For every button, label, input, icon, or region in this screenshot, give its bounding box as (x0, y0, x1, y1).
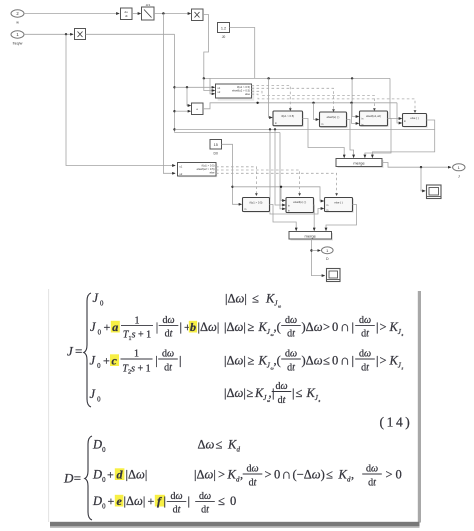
wire J3 out to merge1 (365, 119, 391, 158)
svg-text:c: c (112, 354, 118, 368)
wire bus to J4 input1 (390, 78, 402, 118)
svg-text:merge: merge (353, 161, 365, 166)
svg-text:15: 15 (214, 143, 218, 147)
svg-text:0: 0 (230, 494, 236, 508)
J row3 cond (224, 354, 246, 368)
node (268.6,78.4) (267, 77, 269, 79)
svg-text:|: | (179, 354, 182, 368)
svg-text:if(u1 > 0.5): if(u1 > 0.5) (250, 201, 263, 205)
svg-text:else { }: else { } (410, 116, 418, 120)
delta-w lower bus y=129.4 (175, 128, 435, 130)
svg-text:0: 0 (97, 397, 101, 404)
svg-text:J0: J0 (222, 35, 226, 39)
constant 1.2 block (218, 23, 230, 40)
wire down-left to D-if input1 (66, 34, 175, 165)
svg-text:elseif(u) { }: elseif(u) { } (293, 200, 306, 204)
node at (66,34) (65, 33, 67, 35)
wire merge2 down (312, 239, 325, 276)
dashed if action line 4 (252, 94, 416, 111)
J action block 3 (360, 111, 389, 127)
wire J2 out to merge1 (347, 120, 354, 158)
constant 15 block (210, 140, 222, 156)
svg-text:≤: ≤ (296, 386, 303, 400)
merge block 1 (336, 159, 384, 169)
D If block (178, 163, 218, 178)
sum output bus y=102.8 (203, 103, 397, 109)
vertical bus x=174.5 (174, 34, 176, 132)
svg-text:≥: ≥ (247, 386, 254, 400)
sum block (192, 103, 204, 115)
wire port1 to abs (24, 33, 73, 35)
svg-text:else { }: else { } (334, 201, 342, 205)
D row3 cond (195, 491, 215, 516)
svg-text:D: D (63, 471, 74, 486)
svg-text:≤: ≤ (326, 468, 333, 482)
svg-text:T2s + 1: T2s + 1 (122, 363, 150, 375)
D row2 cond (194, 468, 216, 482)
svg-text:≤: ≤ (218, 494, 225, 508)
svg-text:elseif(u2 > 0.5): elseif(u2 > 0.5) (197, 167, 215, 171)
D action block 2 (286, 198, 315, 214)
wire to output port D (312, 250, 321, 252)
svg-text:(−Δω): (−Δω) (293, 468, 325, 482)
wire saturation to product (154, 13, 191, 15)
output port D (322, 247, 334, 261)
J row4 cond (224, 386, 246, 400)
svg-text:≥: ≥ (248, 354, 255, 368)
node (311.5,250.5) (310, 249, 312, 251)
dashed if action line 1 (252, 85, 291, 109)
svg-text:,(: ,( (274, 320, 281, 334)
derivative block du/dt (121, 8, 133, 20)
wire bus to J1 input (269, 78, 272, 117)
svg-text:≤: ≤ (216, 438, 223, 452)
node (270,129.4) (269, 128, 271, 130)
svg-text:0: 0 (97, 363, 101, 370)
wire dw/dt down to D-if input2 (163, 14, 175, 174)
svg-text:1: 1 (134, 349, 139, 360)
svg-text:,: , (240, 468, 243, 482)
svg-text:d: d (117, 468, 124, 482)
dashed D action line 1 (216, 167, 256, 195)
svg-text:|: | (180, 320, 183, 334)
svg-text:D: D (92, 494, 102, 508)
svg-text:elseif(u) { }: elseif(u) { } (327, 115, 340, 119)
node (351.5,102.8) (350, 102, 352, 104)
svg-text:|: | (156, 320, 159, 334)
wire bus to sum in2 (175, 110, 191, 112)
wire to J2 input (314, 103, 319, 120)
svg-text:,: , (351, 468, 354, 482)
svg-text:|: | (376, 320, 379, 334)
wire to J3 input2 (352, 103, 359, 124)
svg-text:+: + (108, 494, 115, 508)
svg-text:1: 1 (135, 315, 140, 326)
wire J4 out to merge1 (372, 120, 434, 158)
svg-text:≤: ≤ (252, 292, 259, 306)
node (174.5,111.2) (173, 110, 175, 112)
dashed D action line 2 (216, 170, 300, 195)
wire merge1 to output J (382, 163, 451, 168)
wire D1 out to merge2 (270, 205, 297, 231)
D action block 3 (325, 198, 354, 213)
node (187,87.3) (186, 86, 188, 88)
abs block U1 (75, 29, 86, 40)
svg-text:a: a (112, 320, 118, 334)
svg-text:if(u1 > 0.5): if(u1 > 0.5) (202, 164, 215, 168)
svg-text:e: e (117, 494, 123, 508)
svg-text:Δω: Δω (198, 438, 215, 452)
svg-text:w: w (16, 21, 19, 25)
svg-text:0: 0 (332, 354, 338, 368)
wire stub to If1 u3 (210, 78, 215, 93)
wire port2 to derivative (24, 13, 119, 15)
node (421,167.2) (420, 166, 422, 168)
product block (192, 9, 204, 21)
J brace (84, 293, 91, 407)
dashed if action line 2 (252, 88, 334, 110)
svg-text:>: > (323, 320, 330, 334)
node (232.5,186.8) (231, 186, 233, 188)
svg-text:merge: merge (305, 234, 317, 239)
svg-text:∩: ∩ (340, 319, 350, 334)
svg-text:,(: ,( (274, 354, 281, 368)
svg-text:D: D (326, 257, 329, 261)
svg-text:|: | (352, 320, 355, 334)
wire to scope1 (421, 167, 425, 191)
wire to If1 u1 (175, 86, 215, 88)
node (203.8,78.4) (203, 77, 205, 79)
node (352.1,78.4) (351, 77, 353, 79)
J action block 2 (320, 112, 348, 128)
wire D2 out to merge2 (313, 205, 316, 231)
bus y=78.4 (204, 77, 390, 79)
svg-text:≥: ≥ (248, 320, 255, 334)
svg-text:0: 0 (102, 504, 106, 511)
svg-text:0: 0 (100, 301, 104, 308)
lower bus y=132.5 (175, 132, 281, 134)
node (174.5,129.4) (173, 128, 175, 130)
wire derivative to saturation (132, 13, 141, 15)
wire D3 out to merge2 (326, 205, 357, 231)
svg-text:∩: ∩ (282, 467, 292, 482)
wire product down to bus y78 (203, 15, 209, 79)
scope 1 (427, 185, 442, 199)
svg-text:|: | (188, 494, 191, 508)
svg-text:J: J (458, 175, 460, 179)
D brace (85, 436, 92, 520)
node (257.6,102.8) (256, 102, 258, 104)
If block 1 (J logic) (216, 84, 255, 101)
svg-text:elseif(u2 > 0.5): elseif(u2 > 0.5) (232, 89, 250, 93)
svg-text:elseif(u1,u2): elseif(u1,u2) (366, 114, 381, 118)
wire 15 to D1 input (222, 144, 242, 204)
node (281,186.8) (280, 186, 282, 188)
svg-text:>: > (380, 354, 387, 368)
svg-text:|: | (376, 354, 379, 368)
wire x280 to D2 in3 (280, 133, 285, 209)
svg-text:|: | (155, 354, 158, 368)
wire bus to J3 input1 (352, 78, 358, 116)
J row1 cond (225, 292, 247, 306)
svg-text:T1s + 1: T1s + 1 (123, 330, 151, 342)
node (275,129.4) (274, 128, 276, 130)
wire bus drop to If1 u2 (204, 78, 215, 90)
output port J (453, 164, 465, 179)
svg-text:+: + (103, 354, 110, 368)
wire branch to sum in1 (187, 87, 191, 105)
merge block 2 (289, 232, 333, 241)
wire x275 to D2 in2 (275, 129, 285, 205)
J action block 4 (403, 114, 428, 128)
svg-text:>: > (386, 468, 393, 482)
card right shadow (418, 291, 421, 523)
svg-text:0: 0 (102, 447, 106, 454)
svg-text:dt: dt (125, 14, 128, 18)
node (174.5,87.3) (173, 86, 175, 88)
svg-text:)Δω: )Δω (302, 320, 323, 334)
equation card (49, 288, 419, 523)
svg-text:0: 0 (396, 468, 402, 482)
svg-text:(14): (14) (380, 415, 413, 430)
svg-text:b: b (190, 320, 196, 334)
input port 2 (w) (11, 10, 24, 25)
svg-text:+: + (107, 468, 114, 482)
svg-text:>: > (265, 468, 272, 482)
svg-text:0: 0 (274, 468, 280, 482)
node (313.5,102.8) (312, 102, 314, 104)
wire 1.2 to bus y78 (230, 28, 255, 79)
svg-text:=: = (75, 344, 82, 359)
svg-text:0: 0 (98, 330, 102, 337)
saturation block (142, 7, 155, 20)
svg-text:D: D (92, 468, 102, 482)
svg-text:∩: ∩ (340, 353, 350, 368)
dashed D action line 3 (216, 173, 337, 194)
wire J1 out to merge1 (303, 119, 345, 158)
svg-text:D: D (92, 438, 102, 452)
node (163.4,13.5) (162, 12, 164, 14)
svg-text:>: > (380, 320, 387, 334)
svg-text:0: 0 (332, 320, 338, 334)
wire abs to vertical bus (86, 33, 175, 35)
scope 2 (327, 269, 341, 282)
J row2 cond (224, 320, 246, 334)
svg-text:≤: ≤ (323, 354, 330, 368)
svg-text:+: + (104, 320, 111, 334)
wire y=186.8 to D2 in1 and D3 in1 (233, 187, 286, 201)
svg-text:)Δω: )Δω (302, 354, 323, 368)
J action block 1 (273, 111, 304, 127)
svg-text:+: + (148, 494, 155, 508)
svg-text:if(u1 > 0.5): if(u1 > 0.5) (281, 114, 294, 118)
svg-text:else: else (210, 171, 215, 175)
dashed if action line 3 (252, 91, 375, 109)
svg-text:=: = (74, 471, 81, 486)
svg-text:>: > (218, 468, 225, 482)
svg-text:|: | (164, 494, 167, 508)
svg-text:1.2: 1.2 (221, 26, 226, 30)
svg-text:|: | (292, 386, 295, 400)
wire x270 to D3 in2 (270, 129, 324, 214)
svg-text:|: | (352, 354, 355, 368)
svg-text:freq/w: freq/w (13, 42, 23, 46)
card bottom shadow (50, 522, 420, 527)
svg-text:if(u1 > 0.5): if(u1 > 0.5) (237, 85, 250, 89)
wire to J4 input2 (397, 103, 402, 123)
svg-text:D0: D0 (214, 152, 218, 156)
D action block 1 (243, 198, 271, 213)
svg-text:|: | (272, 386, 275, 400)
svg-text:0: 0 (102, 477, 106, 484)
svg-text:else: else (245, 92, 250, 96)
svg-text:dz1: dz1 (146, 3, 151, 7)
input port 1 (freq/w) (11, 31, 24, 46)
